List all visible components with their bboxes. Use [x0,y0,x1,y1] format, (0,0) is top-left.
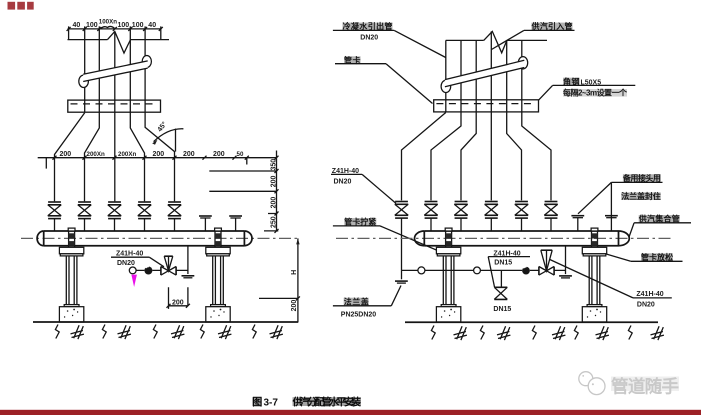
ground hashes [454,326,467,340]
support B [582,228,606,322]
svg-text:DN20: DN20 [360,35,378,42]
svg-text:DN20: DN20 [637,302,655,309]
valve pipe 2 [78,202,91,219]
valve pipe 1 [395,202,408,219]
manifold left cap [414,231,424,246]
right dim slashes [275,156,279,233]
leader to valve 1 [362,174,396,203]
support B [206,228,230,322]
svg-text:DN15: DN15 [494,259,512,266]
strap loop left [79,75,89,87]
45 deg reference vertical [175,129,177,152]
ground squiggles [431,326,435,340]
leader to break [492,30,524,49]
riser pipe 4 [129,40,131,101]
svg-text:3-7: 3-7 [264,397,279,408]
riser pipe 2 [460,40,462,99]
strap loop right [142,56,151,68]
drain filled circle [522,267,530,275]
svg-text:H: H [291,270,298,275]
manifold body [424,231,618,246]
riser pipe 1 [445,40,447,99]
condensate pipe 1 long drop [401,218,403,270]
strap band fill [445,60,524,87]
DN15 branch pipe [500,270,502,287]
valve pipe 6 [544,202,557,219]
svg-text:200: 200 [183,151,195,158]
top left red mark [8,2,34,10]
flare pipe 2 [85,112,100,201]
angle steel hidden dashed line [436,103,536,105]
right dim extension lines [209,171,278,231]
drain small circle [129,267,136,274]
riser pipe 5 [506,40,508,99]
angle steel bar [434,100,539,112]
riser pipe 3 [475,40,477,99]
leader to support flange [606,254,631,261]
leader to bar [386,64,433,104]
valve pipe 4 [138,202,151,219]
strap band edges [445,60,524,87]
45 deg arc with arrow [154,129,184,142]
svg-text:40: 40 [73,22,81,29]
top dimension ticks [67,27,163,31]
drain 200 dim ticks [169,287,188,309]
svg-text:200: 200 [172,300,184,307]
svg-text:100Xn: 100Xn [99,19,117,26]
bottom red bar [0,410,701,415]
leader to bar corner [539,85,553,100]
drain blanked end [559,276,572,278]
flare pipe 3 straight [114,112,116,201]
manifold centerline [21,237,298,239]
svg-text:200Xn: 200Xn [87,151,105,158]
leader to globe valve [149,257,164,267]
svg-text:200: 200 [270,176,277,188]
ground line [33,321,298,323]
angle steel hidden dashed line [71,103,159,105]
leader to DN15 valve [488,257,494,287]
svg-text:200Xn: 200Xn [118,151,136,158]
H dim mid tick [259,296,300,300]
svg-text:Z41H-40: Z41H-40 [636,291,663,298]
valve pipe 5 [515,202,528,219]
support A [59,228,83,322]
flare pipe 6 [522,112,551,200]
riser pipe 1 [84,40,86,101]
svg-text:DN20: DN20 [334,178,352,185]
logo icon circles [579,372,593,386]
drain drop pipe [187,246,189,274]
top header line with break gap [68,39,170,41]
flare pipe 1 [402,113,446,201]
support A [436,228,460,322]
riser pipe 3 from break [114,32,116,101]
drain union circle 1 [418,267,425,274]
strap loop left [441,80,451,92]
pipes through bar [85,100,145,112]
leader to pipe 1 [394,30,446,57]
strap band fill [83,61,148,82]
drain 200 dim line [167,304,190,308]
lower dim left end tick [45,158,47,169]
top header line with break gap [446,39,547,41]
ground squiggles [55,325,59,339]
valve pipe 5 [168,202,181,219]
flare pipe 1 [55,113,85,202]
svg-text:DN20: DN20 [117,260,135,267]
riser pipe 4 from break [490,31,492,99]
drain drop from manifold [565,246,567,274]
svg-text:200: 200 [60,151,72,158]
manifold right cap [619,231,630,246]
svg-text:100: 100 [132,22,144,29]
valve pipe 4 [485,202,498,219]
drain filled circle [144,267,152,275]
manifold right cap [244,231,252,246]
svg-text:200: 200 [153,151,165,158]
right dim column vertical [276,151,278,231]
svg-text:100: 100 [118,22,130,29]
svg-text:100: 100 [86,22,98,29]
svg-text:200: 200 [291,300,298,312]
svg-text:PN25DN20: PN25DN20 [341,311,377,318]
drop pipes to manifold [55,219,175,231]
flare pipe 4 straight [490,112,492,200]
spare stub 1 [571,216,584,218]
pipe break zigzag [108,32,131,54]
valve pipe 2 [424,202,437,219]
svg-text:250: 250 [270,216,277,228]
manifold centerline [336,237,673,239]
spare stub 2 with riser to label [605,216,618,218]
magenta arrow [131,275,137,287]
spare stub 1 [199,216,212,218]
ground line [405,321,658,323]
drop pipes to manifold [431,218,551,231]
leader to blanked end [391,286,401,306]
flare pipe 2 [431,112,461,200]
svg-text:200: 200 [270,197,277,209]
svg-text:40: 40 [148,22,156,29]
long leader to globe valve [550,260,633,298]
svg-text:350: 350 [270,159,277,171]
drain horizontal line [402,269,566,271]
valve pipe 3 [108,202,121,219]
strap loop right [518,57,527,69]
leader to manifold cap [629,223,634,237]
drain horizontal line [136,269,188,271]
flare pipe 4 [130,112,144,201]
condensate blanked end [401,270,403,279]
leader to stub 1 [578,182,611,213]
lower dim slashes [53,156,237,160]
flare pipe 5 [145,112,174,201]
valve pipe 1 [48,202,61,219]
angle steel bar [68,100,161,112]
spare stub 2 [229,216,242,218]
leader to support flange [380,226,448,255]
drain union circle 2 [474,267,481,274]
pipes through bar [446,100,522,112]
DN15 branch valve [494,287,507,299]
riser pipe 6 [521,40,523,99]
lower dimension line [38,157,277,159]
svg-text:DN15: DN15 [493,306,511,313]
lower dim 50-end tick [245,156,249,165]
drain globe valve [539,250,554,275]
riser pipe 5 [144,40,146,101]
drain blanked end [182,276,195,278]
flare pipe 5 [507,112,522,200]
top dimension extension lines [69,26,161,39]
top dimension line [68,28,162,30]
flare pipe 3 [461,112,476,200]
brace under 100Xn [101,26,115,28]
manifold left cap [37,231,44,246]
H dim vertical [297,238,299,322]
svg-text:50: 50 [237,151,244,158]
svg-text:200: 200 [213,151,225,158]
riser pipe 2 [98,40,100,101]
pipe break zigzag [484,31,507,52]
valve pipe 3 [454,202,467,219]
manifold body [44,231,245,246]
ground hashes [71,325,84,339]
drain globe valve [161,256,176,275]
strap band edges [83,61,148,82]
